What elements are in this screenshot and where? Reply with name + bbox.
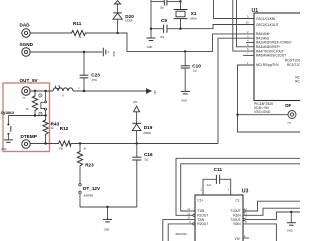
switch element (in red box) xyxy=(39,91,47,116)
wire OSC2 route from crystal xyxy=(181,25,255,29)
wire MCLR route to DF and right edge xyxy=(238,65,301,132)
node D20/R11 junction xyxy=(116,32,118,34)
diode D20 xyxy=(113,4,134,33)
svg-text:D19: D19 xyxy=(144,125,153,130)
svg-text:GND: GND xyxy=(104,228,110,231)
svg-text:R11: R11 xyxy=(73,21,82,26)
IC U3 MAX232 xyxy=(176,189,249,241)
wire jumper to C16 bottom xyxy=(80,206,137,208)
svg-text:GND: GND xyxy=(181,99,187,102)
wire pin9 down to bottom edge xyxy=(168,224,187,241)
svg-text:X1: X1 xyxy=(191,11,197,16)
svg-text:R2IN: R2IN xyxy=(233,222,241,226)
svg-text:C10: C10 xyxy=(192,63,201,68)
svg-text:сушка: сушка xyxy=(1,110,15,115)
resistor R23 xyxy=(77,144,94,184)
wire internal bottom of red box xyxy=(8,115,45,117)
wire RA0 route from D20 node xyxy=(118,33,254,51)
resistor R11 xyxy=(70,21,87,39)
U3 pin stubs right + routes xyxy=(243,210,245,212)
wire R12 to D19 node and right xyxy=(72,143,218,145)
capacitor C16 xyxy=(132,144,153,208)
wire outer RS232 line (to pin 12) xyxy=(176,158,300,215)
node xyxy=(34,90,36,92)
svg-text:DT_12V: DT_12V xyxy=(83,186,101,191)
svg-text:RA5/AN4/SS/C2OUT: RA5/AN4/SS/C2OUT xyxy=(256,54,286,58)
ground (C10) xyxy=(181,91,190,102)
wire RA5 stub xyxy=(243,54,254,56)
connector OUT_5V xyxy=(20,78,39,99)
node crystal top xyxy=(179,0,181,2)
resistor 3k (vertical, in red box) xyxy=(26,91,38,116)
connector DF xyxy=(285,103,296,124)
svg-text:C9: C9 xyxy=(161,18,167,23)
switch сушка (to GND) xyxy=(7,116,10,140)
svg-text:R12: R12 xyxy=(60,126,69,131)
svg-text:2u2: 2u2 xyxy=(144,158,149,161)
svg-text:D20: D20 xyxy=(125,14,134,19)
wire pin10 down to bottom edge xyxy=(163,220,187,241)
svg-text:SGND: SGND xyxy=(20,42,34,47)
resistor R12 xyxy=(58,126,72,150)
svg-text:C1-: C1- xyxy=(235,199,240,203)
connector DTEMP xyxy=(21,134,37,148)
svg-text:470n: 470n xyxy=(113,50,116,56)
ground (red box) xyxy=(1,140,13,151)
wire R11 to D20 node xyxy=(87,32,118,34)
ground (bottom middle) xyxy=(103,207,112,231)
connector SGND xyxy=(20,42,34,56)
svg-text:R43: R43 xyxy=(51,121,60,126)
svg-text:OSC1/CLKIN: OSC1/CLKIN xyxy=(256,17,276,21)
VS+ stub xyxy=(243,237,249,239)
svg-text:2u2: 2u2 xyxy=(193,70,198,73)
svg-text:15p: 15p xyxy=(160,36,165,39)
wire RA3 route from top xyxy=(237,0,255,47)
svg-text:U1: U1 xyxy=(252,8,259,14)
wire DAD to R11 xyxy=(30,32,70,34)
svg-text:R2OUT: R2OUT xyxy=(197,222,208,226)
svg-text:RC1/T1OSI/CCP2: RC1/T1OSI/CCP2 xyxy=(287,63,300,67)
U3 pin stubs left xyxy=(187,210,195,212)
wire OUT_5V right xyxy=(30,90,53,92)
capacitor C11 xyxy=(200,167,231,195)
capacitor C23 xyxy=(80,52,101,91)
svg-text:+5V: +5V xyxy=(133,100,138,104)
capacitor C8 (top, cut off) xyxy=(151,0,181,10)
svg-text:15p: 15p xyxy=(160,7,165,10)
wire caps common to ground xyxy=(150,0,152,38)
svg-text:DF: DF xyxy=(285,103,291,108)
power +5V arrow (top, above D20) xyxy=(115,1,121,4)
diode D19 with +5V arrow xyxy=(132,100,152,143)
node xyxy=(44,90,46,92)
svg-text:DAD: DAD xyxy=(20,23,31,28)
wire DTEMP right xyxy=(30,143,58,145)
svg-text:PIN: PIN xyxy=(288,122,292,124)
svg-text:RC7/RX/DT: RC7/RX/DT xyxy=(295,79,300,83)
jumper DT_12V xyxy=(79,184,101,208)
wire inner RS232 line (to pin 11) xyxy=(181,164,300,211)
svg-text:L1: L1 xyxy=(55,85,61,90)
svg-text:U3: U3 xyxy=(242,189,249,195)
wire RA1 route from DTEMP net xyxy=(218,38,254,143)
ground (right of U3) xyxy=(287,212,296,233)
svg-text:C11: C11 xyxy=(214,167,223,172)
resistor R43 xyxy=(43,116,60,144)
capacitor C10 xyxy=(181,51,202,91)
wire OSC1 route from top xyxy=(214,0,255,19)
svg-text:C16: C16 xyxy=(144,152,153,157)
wire RA4 route from top xyxy=(233,0,254,51)
svg-text:VSS=GND: VSS=GND xyxy=(254,110,271,114)
ground (crystal) xyxy=(147,38,156,49)
power +5V arrow (right-pointing) xyxy=(146,89,157,95)
capacitor C9 xyxy=(151,18,181,39)
crystal X1 xyxy=(174,10,198,21)
wire L1 to +5V arrow xyxy=(73,90,146,92)
svg-text:GND: GND xyxy=(147,46,153,49)
node C23 top junction xyxy=(83,51,85,53)
svg-text:8MHz: 8MHz xyxy=(190,18,197,21)
capacitor C24 (series polarized cap on SGND line) xyxy=(103,48,116,57)
svg-text:C23: C23 xyxy=(91,73,100,78)
svg-text:MAX232: MAX232 xyxy=(176,232,187,236)
inductor L1 xyxy=(53,85,80,98)
svg-text:2u2: 2u2 xyxy=(207,184,212,187)
svg-text:10: 10 xyxy=(246,20,250,24)
svg-text:470n: 470n xyxy=(92,79,98,82)
svg-text:GND: GND xyxy=(1,148,7,151)
wire crystal bottom to C9 node xyxy=(180,19,182,29)
svg-text:DIODE: DIODE xyxy=(125,21,133,23)
red highlight box xyxy=(3,83,50,152)
svg-text:MCLR/Vpp/THV: MCLR/Vpp/THV xyxy=(256,63,280,67)
svg-text:GND: GND xyxy=(287,230,293,233)
svg-text:RC0/T1OSO/T1CKI: RC0/T1OSO/T1CKI xyxy=(285,59,300,63)
IC U1 PIC18F2520 xyxy=(246,8,314,114)
connector DAD xyxy=(20,23,31,38)
wire SGND right xyxy=(30,51,103,53)
svg-text:OSC2/CLKOUT: OSC2/CLKOUT xyxy=(256,23,279,27)
node C10 top xyxy=(184,50,186,52)
svg-text:OUT_5V: OUT_5V xyxy=(20,78,39,83)
svg-text:C1+: C1+ xyxy=(197,199,203,203)
svg-text:R23: R23 xyxy=(85,163,94,168)
svg-text:VS+: VS+ xyxy=(234,237,240,241)
svg-text:+5V: +5V xyxy=(153,90,157,95)
svg-text:DIODE: DIODE xyxy=(144,133,152,135)
svg-text:JUMPER: JUMPER xyxy=(83,195,93,198)
svg-text:DTEMP: DTEMP xyxy=(21,134,37,139)
wire RA2 stub xyxy=(246,42,254,44)
